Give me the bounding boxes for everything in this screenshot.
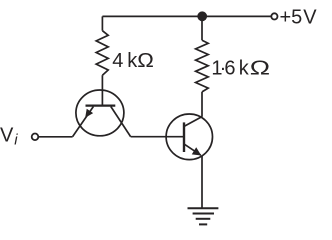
svg-text:+5: +5 [280,6,303,28]
svg-text:6: 6 [224,57,235,79]
svg-text:Ω: Ω [250,57,270,79]
svg-text:i: i [14,131,18,148]
svg-text:4: 4 [112,50,123,72]
svg-text:k: k [239,57,250,79]
svg-text:Ω: Ω [137,50,154,72]
svg-text:V: V [303,6,317,28]
svg-text:V: V [0,124,14,146]
